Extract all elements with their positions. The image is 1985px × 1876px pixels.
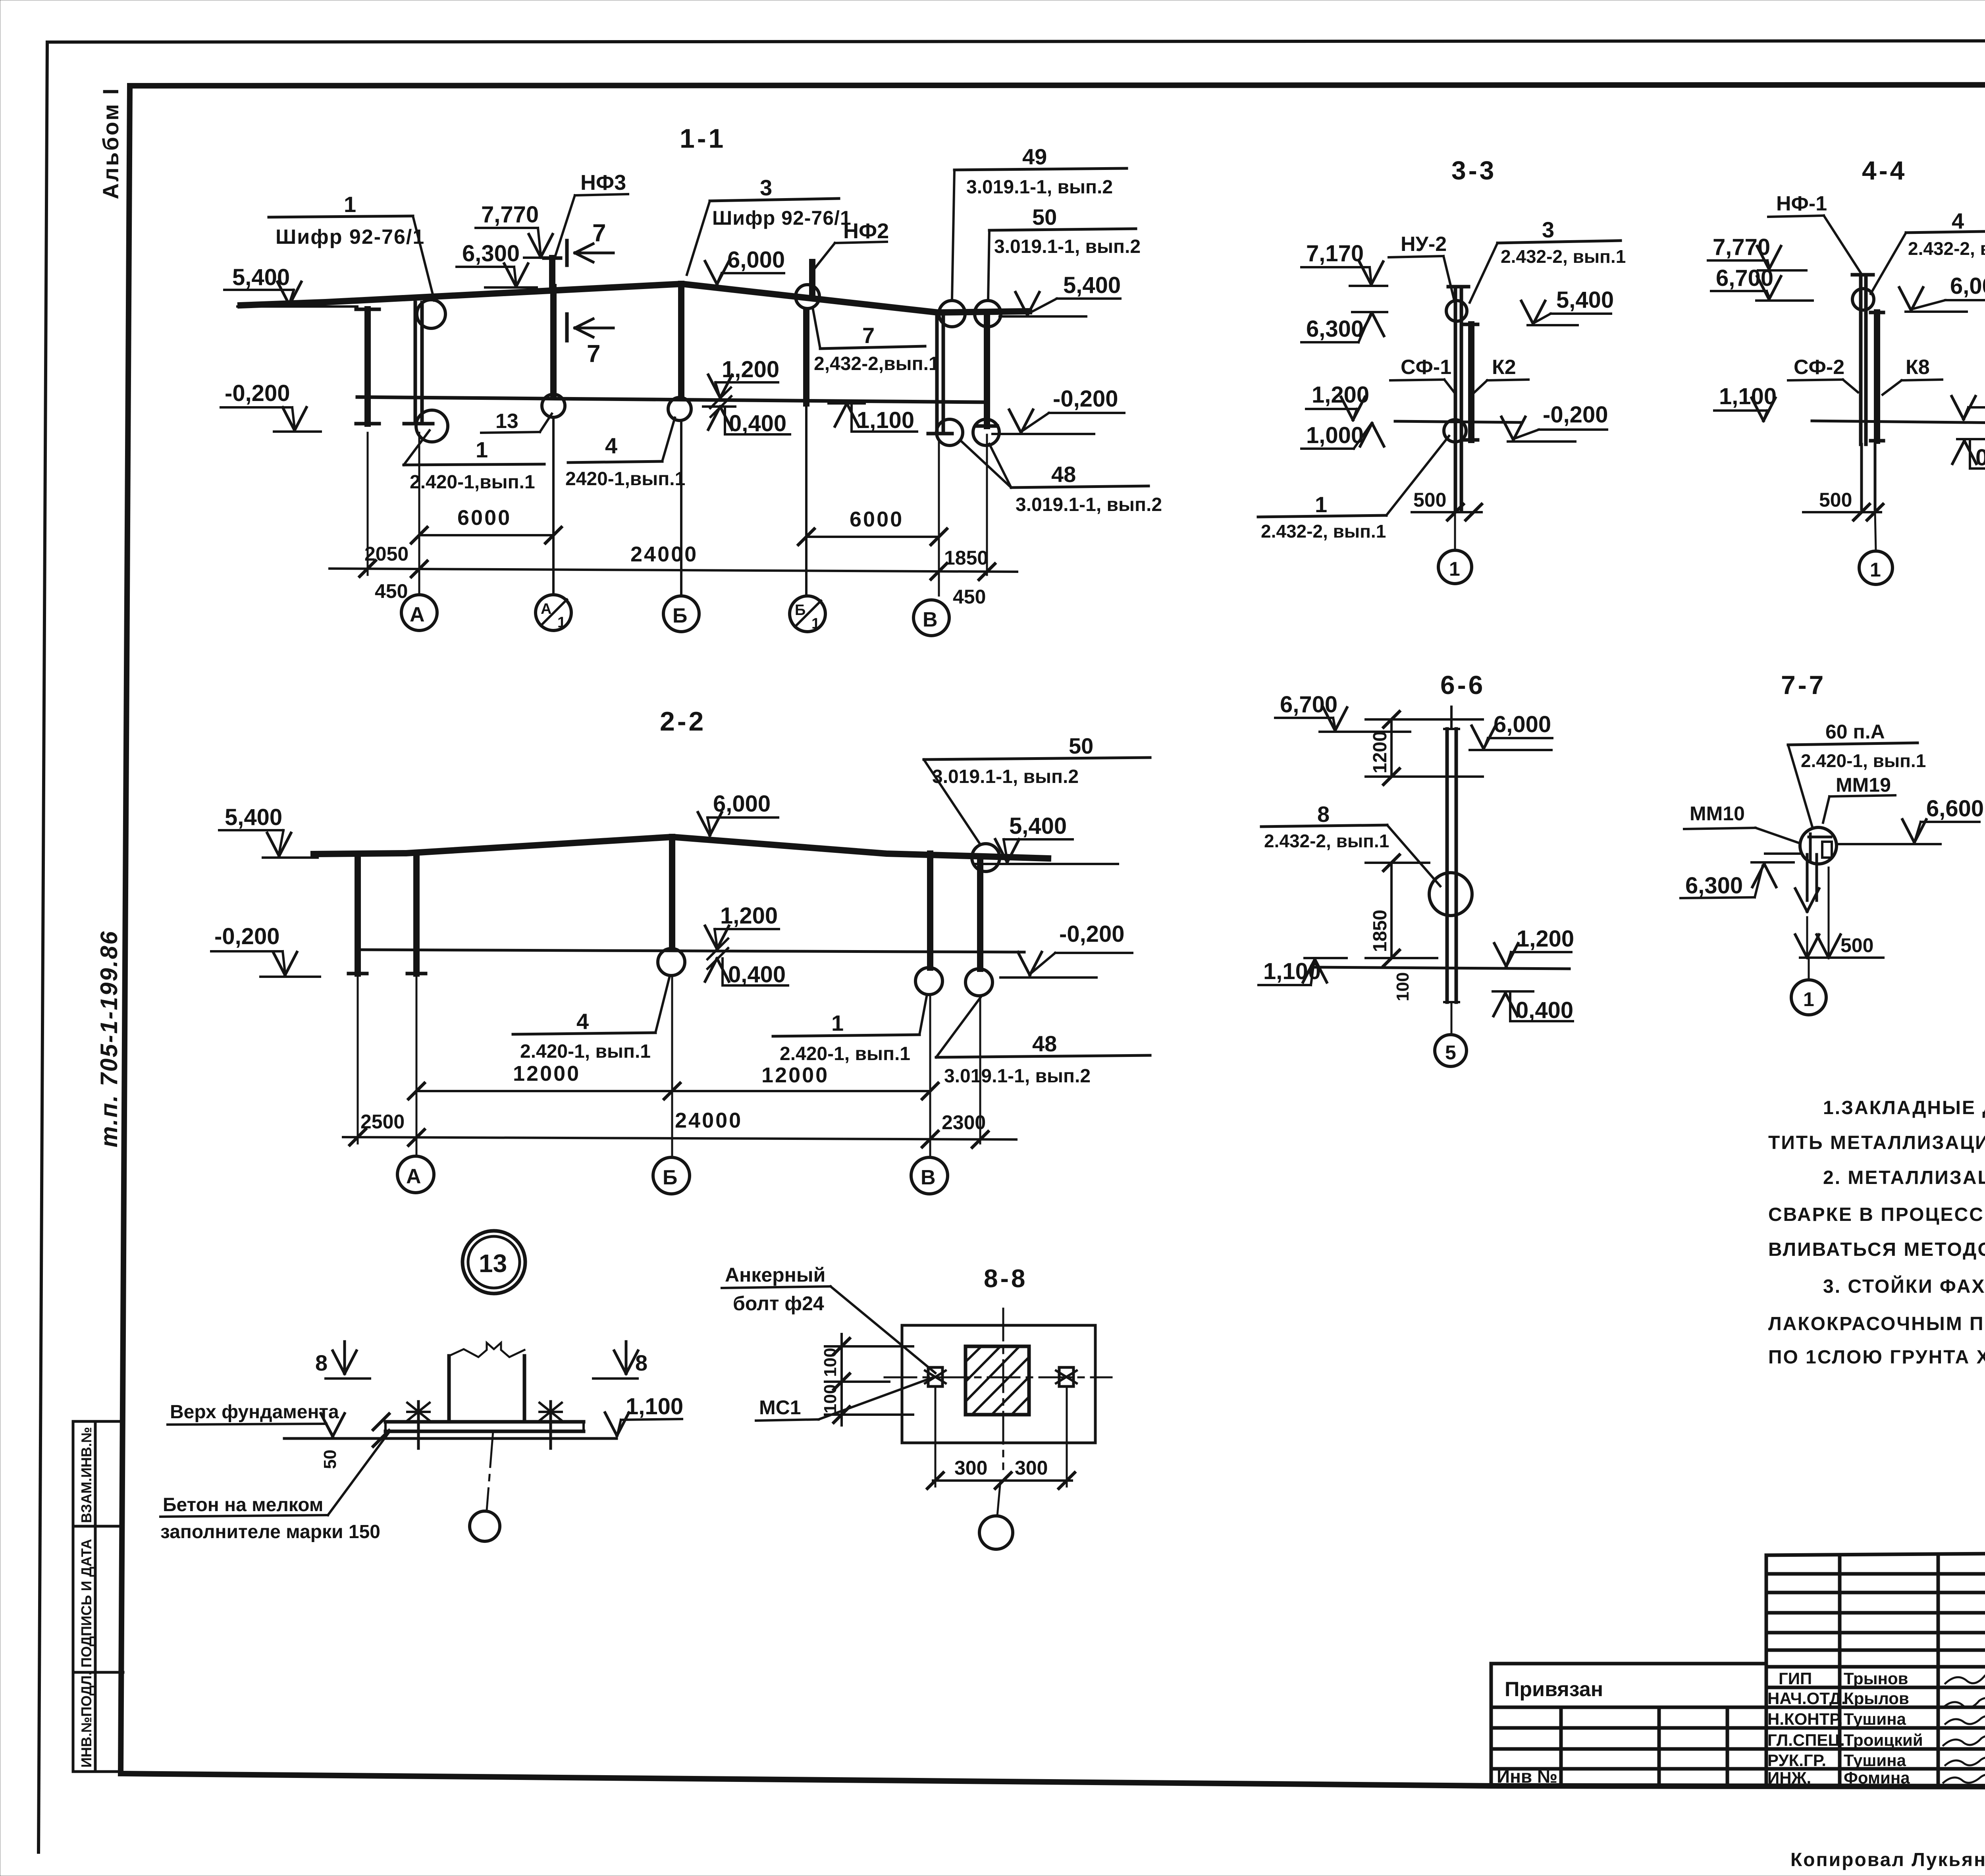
svg-text:2300: 2300: [942, 1111, 986, 1134]
foundation top line node 13: [284, 1437, 617, 1440]
svg-text:6,700: 6,700: [1716, 265, 1773, 291]
dim 300 300 8-8: [933, 1479, 1072, 1482]
svg-text:болт ф24: болт ф24: [733, 1292, 824, 1315]
main dim line 24000: [330, 569, 1017, 572]
svg-text:Б: Б: [663, 1166, 677, 1189]
svg-text:12000: 12000: [513, 1062, 580, 1085]
signatures squiggles: [1943, 1672, 1985, 1783]
svg-text:5: 5: [1445, 1041, 1456, 1064]
svg-text:12000: 12000: [761, 1063, 829, 1087]
node circle 6-6: [1429, 873, 1472, 916]
node circle 7-7: [1800, 827, 1837, 864]
svg-text:НФ3: НФ3: [580, 171, 626, 195]
svg-text:3.019.1-1, вып.2: 3.019.1-1, вып.2: [994, 236, 1141, 257]
anchor bolts below node 7-7: [1806, 854, 1809, 900]
svg-text:6,600: 6,600: [1926, 796, 1984, 821]
svg-text:СФ-2: СФ-2: [1794, 356, 1844, 379]
svg-text:4: 4: [576, 1009, 589, 1034]
anchor bolt left node 13: [417, 1402, 420, 1448]
dim line 12000+12000: [416, 1090, 930, 1092]
column A 2-2: [413, 854, 420, 974]
svg-text:2.432-2, вып.1: 2.432-2, вып.1: [1501, 246, 1626, 267]
svg-text:1850: 1850: [1370, 910, 1391, 952]
svg-text:ПОДПИСЬ И ДАТА: ПОДПИСЬ И ДАТА: [78, 1539, 94, 1668]
svg-text:3.019.1-1, вып.2: 3.019.1-1, вып.2: [932, 766, 1079, 787]
svg-text:К2: К2: [1492, 356, 1516, 379]
svg-text:Тушина: Тушина: [1844, 1751, 1906, 1770]
svg-text:МС1: МС1: [759, 1396, 801, 1419]
column V (double): [935, 312, 939, 434]
node circles V roof: [939, 301, 965, 327]
elevation 0,400 right 4-4: [1957, 438, 1985, 440]
node circle top 4-4: [1852, 289, 1874, 310]
anchor bolt right node 13: [549, 1402, 552, 1448]
svg-text:2.432-2, вып.1: 2.432-2, вып.1: [1261, 521, 1386, 542]
svg-text:450: 450: [375, 580, 408, 602]
svg-text:Крылов: Крылов: [1844, 1689, 1909, 1708]
svg-text:450: 450: [953, 586, 986, 608]
svg-text:2,432-2,вып.1: 2,432-2,вып.1: [814, 353, 939, 374]
post left of A 2-2: [355, 858, 361, 974]
svg-text:50: 50: [1069, 733, 1093, 758]
svg-text:6,300: 6,300: [462, 241, 520, 266]
svg-text:7: 7: [592, 220, 606, 247]
0.400 level tick at B: [703, 405, 735, 408]
svg-text:13: 13: [495, 410, 518, 433]
svg-text:3.019.1-1, вып.2: 3.019.1-1, вып.2: [944, 1066, 1091, 1087]
svg-text:500: 500: [1840, 934, 1873, 956]
column B 2-2: [669, 837, 675, 949]
svg-text:Тушина: Тушина: [1844, 1710, 1906, 1728]
svg-text:5,400: 5,400: [1556, 287, 1614, 313]
svg-text:100: 100: [1393, 972, 1413, 1001]
roof chord line 2-2: [314, 837, 1048, 858]
axis circle B: [663, 596, 699, 632]
label 50 / 3.019.1-1 vyp.2: [989, 229, 1136, 230]
svg-text:1: 1: [344, 192, 356, 217]
svg-text:1: 1: [811, 615, 820, 632]
svg-text:7-7: 7-7: [1781, 670, 1826, 700]
svg-text:2.432-2, вып.1: 2.432-2, вып.1: [1264, 831, 1389, 851]
svg-text:50: 50: [1032, 204, 1057, 229]
foundation line 6-6: [1312, 967, 1569, 969]
node circle post base 2-2: [966, 969, 992, 996]
svg-text:Бетон на мелком: Бетон на мелком: [163, 1494, 323, 1515]
foundation level line: [357, 397, 985, 402]
axis line 7-7: [1828, 868, 1830, 956]
svg-text:НУ-2: НУ-2: [1401, 233, 1447, 256]
dim 50 node 13: [373, 1414, 389, 1430]
axis circle B 2-2: [653, 1157, 690, 1194]
svg-text:ТИТЬ МЕТАЛЛИЗАЦИОННЫМ СЛОЕМ ИЗ: ТИТЬ МЕТАЛЛИЗАЦИОННЫМ СЛОЕМ ИЗ ЦИНКА 150…: [1768, 1132, 1985, 1153]
svg-text:7: 7: [862, 323, 875, 348]
svg-text:1850: 1850: [944, 547, 988, 569]
svg-text:В: В: [921, 1166, 936, 1189]
dim 6000 left: [419, 534, 553, 536]
node 13 bubble (double circle): [463, 1231, 525, 1294]
node inner details 7-7: [1809, 834, 1812, 860]
svg-text:1.ЗАКЛАДНЫЕ ДЕТАЛИ И СОЕДИНИТЕ: 1.ЗАКЛАДНЫЕ ДЕТАЛИ И СОЕДИНИТЕЛЬНЫЕ ЭЛЕМ…: [1823, 1097, 1985, 1118]
post right of V 2-2: [977, 858, 983, 969]
elevation 1,100 at B/1: [835, 403, 859, 426]
svg-text:2050: 2050: [364, 543, 409, 565]
svg-text:24000: 24000: [675, 1109, 742, 1132]
svg-text:2.432-2, вып.1: 2.432-2, вып.1: [1908, 238, 1985, 259]
bolt right 8-8: [1059, 1367, 1073, 1386]
svg-text:6-6: 6-6: [1440, 670, 1485, 700]
node circle B base 2-2: [658, 949, 685, 976]
svg-text:1,000: 1,000: [1306, 422, 1364, 448]
svg-text:6,000: 6,000: [1494, 711, 1551, 737]
svg-text:7: 7: [587, 340, 600, 368]
fachwerk post right of V: [984, 312, 990, 426]
centerlines 8-8: [885, 1377, 1112, 1379]
post 3-3 (double): [1454, 287, 1457, 509]
svg-text:50: 50: [320, 1450, 340, 1469]
svg-text:5,400: 5,400: [1063, 272, 1121, 298]
svg-text:7,770: 7,770: [481, 202, 539, 228]
svg-text:6,000: 6,000: [727, 247, 785, 273]
axis line + circle 5 6-6: [1451, 1002, 1453, 1033]
svg-text:Альбом I: Альбом I: [98, 87, 123, 199]
svg-text:Б: Б: [795, 602, 806, 619]
node circle B/1 roof: [796, 285, 819, 308]
label 48 2-2: [936, 1055, 1150, 1057]
node circle top 3-3: [1446, 301, 1467, 321]
5.400 level line left: [237, 305, 357, 308]
ground line 4-4: [1812, 421, 1985, 423]
foundation level line 2-2: [362, 950, 1024, 952]
vertical dim 1850 6-6: [1390, 863, 1393, 958]
outer plate rect 8-8: [902, 1325, 1095, 1443]
svg-text:8-8: 8-8: [984, 1264, 1028, 1293]
column B (middle): [678, 284, 684, 397]
level line through node 7-7: [1765, 852, 1800, 855]
svg-text:А: А: [541, 601, 551, 617]
post 4-4 (double): [1859, 275, 1863, 444]
svg-text:2.420-1, вып.1: 2.420-1, вып.1: [520, 1041, 651, 1062]
svg-text:-0,200: -0,200: [1053, 386, 1118, 412]
svg-text:3.019.1-1, вып.2: 3.019.1-1, вып.2: [1016, 494, 1162, 515]
svg-text:А: А: [406, 1165, 421, 1188]
svg-text:Троицкий: Троицкий: [1844, 1731, 1923, 1749]
svg-text:ММ19: ММ19: [1836, 774, 1891, 796]
svg-text:1-1: 1-1: [680, 123, 726, 154]
svg-text:7,170: 7,170: [1306, 241, 1364, 266]
svg-text:Верх фундамента: Верх фундамента: [170, 1402, 339, 1423]
svg-text:Н.КОНТР.: Н.КОНТР.: [1767, 1710, 1843, 1728]
post 6-6: [1445, 729, 1449, 1002]
outer sheet border top: [47, 40, 1985, 42]
svg-text:1: 1: [1870, 559, 1881, 581]
svg-text:1200: 1200: [1370, 731, 1391, 773]
svg-text:ПО 1СЛОЮ ГРУНТА ХС-010(ГОСТ 93: ПО 1СЛОЮ ГРУНТА ХС-010(ГОСТ 9355-81)ОБЩЕ…: [1768, 1346, 1985, 1368]
svg-text:1,100: 1,100: [626, 1394, 683, 1419]
1.100 level tick at B/1: [829, 402, 865, 405]
hatched column section 8-8: [966, 1346, 1029, 1415]
svg-text:заполнителе марки 150: заполнителе марки 150: [160, 1521, 380, 1542]
svg-text:1: 1: [557, 614, 566, 631]
svg-text:6,300: 6,300: [1685, 873, 1743, 898]
svg-text:1: 1: [831, 1010, 844, 1035]
svg-text:2. МЕТАЛЛИЗАЦИОННОЕ ПОКРЫТИЕ,: 2. МЕТАЛЛИЗАЦИОННОЕ ПОКРЫТИЕ, ПОВРЕЖДЕНН…: [1823, 1167, 1985, 1188]
axis line + circle node 13: [487, 1431, 493, 1510]
svg-text:НАЧ.ОТД.: НАЧ.ОТД.: [1767, 1689, 1846, 1708]
column A/1: [550, 287, 557, 394]
vertical dims 100 100 8-8: [840, 1334, 843, 1425]
privyazan table: [1491, 1664, 1766, 1787]
axis circle A 2-2: [397, 1156, 434, 1193]
svg-text:СФ-1: СФ-1: [1401, 356, 1451, 379]
node circles V base: [937, 419, 963, 445]
svg-text:2.420-1, вып.1: 2.420-1, вып.1: [1801, 750, 1926, 771]
section cut mark 7 upper: [565, 241, 569, 265]
svg-text:5,400: 5,400: [1009, 813, 1067, 839]
svg-text:ГЛ.СПЕЦ.: ГЛ.СПЕЦ.: [1767, 1731, 1845, 1749]
svg-text:1: 1: [476, 437, 488, 462]
svg-text:СВАРКЕ В ПРОЦЕССЕ МОНТАЖА КОНС: СВАРКЕ В ПРОЦЕССЕ МОНТАЖА КОНСТРУКЦИЙ, Д…: [1768, 1203, 1985, 1225]
svg-text:Шифр 92-76/1: Шифр 92-76/1: [712, 207, 852, 229]
axis circle A: [401, 595, 437, 630]
svg-text:Б: Б: [673, 604, 687, 627]
vertical dim 1200 6-6: [1390, 719, 1393, 777]
column B/1: [803, 310, 809, 403]
dim 6000 right: [806, 536, 939, 538]
axis circle V 2-2: [911, 1157, 948, 1194]
axis line + circle 1 3-3: [1454, 509, 1456, 549]
node circle bottom 3-3: [1444, 420, 1466, 442]
svg-text:2.420-1,вып.1: 2.420-1,вып.1: [410, 472, 535, 493]
svg-text:Анкерный: Анкерный: [725, 1264, 825, 1286]
fachwerk NF3 stub above roof at A/1: [549, 258, 555, 287]
svg-text:Привязан: Привязан: [1505, 1678, 1603, 1701]
svg-text:300: 300: [954, 1457, 987, 1479]
svg-text:4-4: 4-4: [1862, 156, 1907, 185]
axis circle V: [913, 600, 949, 636]
svg-text:НФ2: НФ2: [843, 219, 889, 243]
axis circle A/1: [536, 595, 571, 630]
svg-text:2420-1,вып.1: 2420-1,вып.1: [565, 469, 685, 490]
svg-text:2.420-1, вып.1: 2.420-1, вып.1: [780, 1043, 910, 1064]
axis circle B/1: [790, 596, 825, 632]
fachwerk NF2 stub above roof at B/1: [809, 262, 815, 296]
axis circle 1 7-7: [1808, 958, 1810, 980]
svg-text:1,100: 1,100: [1719, 384, 1777, 409]
svg-text:8: 8: [1317, 802, 1330, 827]
svg-text:ИНВ.№ПОДЛ.: ИНВ.№ПОДЛ.: [78, 1672, 94, 1768]
svg-text:5,400: 5,400: [225, 804, 282, 830]
label 1 Shifr 92-76/1: [269, 216, 413, 217]
dim line 24000 2-2: [343, 1137, 1016, 1139]
svg-text:100: 100: [821, 1384, 840, 1413]
svg-text:Шифр 92-76/1: Шифр 92-76/1: [276, 226, 425, 249]
elevation 0,400 at B: [708, 407, 732, 430]
svg-text:2-2: 2-2: [660, 706, 706, 737]
ground line 3-3: [1395, 421, 1522, 422]
svg-text:ВЗАМ.ИНВ.№: ВЗАМ.ИНВ.№: [78, 1427, 94, 1523]
svg-text:6,000: 6,000: [1950, 273, 1985, 299]
svg-text:0,400: 0,400: [1516, 997, 1573, 1023]
svg-text:В: В: [923, 608, 938, 631]
column A (double): [414, 303, 417, 424]
label 48 / 3.019.1-1 vyp.2: [1011, 486, 1149, 488]
label 50 2-2: [924, 758, 1150, 760]
svg-text:6000: 6000: [850, 507, 904, 531]
svg-text:6,700: 6,700: [1280, 692, 1337, 717]
svg-text:3.019.1-1, вып.2: 3.019.1-1, вып.2: [966, 177, 1113, 198]
column K2 bar 3-3: [1468, 324, 1474, 440]
svg-text:1: 1: [1449, 558, 1460, 580]
svg-text:Инв №: Инв №: [1497, 1766, 1557, 1787]
node circle V base 2-2: [915, 968, 942, 995]
svg-text:3-3: 3-3: [1451, 156, 1496, 185]
svg-text:3. СТОЙКИ ФАХВЕРКА, НАСАДКИ, О: 3. СТОЙКИ ФАХВЕРКА, НАСАДКИ, ОПОРНЫЕ СТО…: [1823, 1275, 1985, 1297]
svg-text:1: 1: [1315, 492, 1327, 517]
outer sheet border left: [39, 42, 47, 1852]
node circle A/1 base: [542, 394, 565, 417]
svg-text:-0,200: -0,200: [1543, 402, 1608, 428]
axis circle 8-8: [997, 1481, 1000, 1516]
svg-text:Фомина: Фомина: [1844, 1768, 1910, 1787]
svg-text:13: 13: [479, 1249, 507, 1278]
svg-text:0,400: 0,400: [1975, 445, 1985, 470]
svg-text:1,100: 1,100: [857, 407, 914, 433]
svg-text:-0,200: -0,200: [225, 380, 290, 406]
signature rows text: [1767, 1669, 1923, 1787]
svg-text:ЛАКОКРАСОЧНЫМ ПОКРЫТИЕМ ИЗ 5СЛ: ЛАКОКРАСОЧНЫМ ПОКРЫТИЕМ ИЗ 5СЛОЕВ ХВ-110…: [1768, 1313, 1985, 1334]
node circle roof right 2-2: [972, 844, 1000, 871]
svg-text:Копировал Лукьянова: Копировал Лукьянова: [1790, 1849, 1985, 1870]
svg-text:0,400: 0,400: [729, 411, 786, 436]
svg-text:6000: 6000: [457, 506, 511, 530]
svg-text:0,400: 0,400: [728, 962, 786, 987]
label 7 / 2,432-2 vyp.1 at B/1: [820, 346, 925, 349]
section cut mark 7 lower: [565, 314, 569, 341]
elevation 0,400 6-6: [1493, 990, 1533, 993]
svg-text:НФ-1: НФ-1: [1776, 192, 1827, 215]
node circle A base: [416, 410, 448, 442]
base plate node 13: [385, 1420, 584, 1424]
svg-text:-0,200: -0,200: [214, 924, 279, 949]
svg-text:1: 1: [1803, 988, 1814, 1010]
svg-text:500: 500: [1413, 489, 1446, 511]
svg-text:8: 8: [315, 1350, 328, 1375]
column K8 bar 4-4: [1874, 312, 1880, 441]
svg-text:ГИП: ГИП: [1779, 1669, 1812, 1688]
extension lines: [367, 433, 369, 575]
svg-text:6,300: 6,300: [1306, 316, 1364, 342]
svg-text:3: 3: [1542, 217, 1554, 242]
svg-text:К8: К8: [1906, 356, 1930, 379]
svg-text:500: 500: [1819, 489, 1852, 511]
svg-text:2500: 2500: [360, 1111, 405, 1133]
anchor verticals below ground 4-4: [1860, 444, 1863, 509]
svg-text:4: 4: [1952, 208, 1964, 233]
label 49 / 3.019.1-1 vyp.2: [954, 168, 1127, 170]
svg-text:300: 300: [1015, 1457, 1048, 1479]
svg-text:1,200: 1,200: [1517, 926, 1574, 952]
svg-text:Трынов: Трынов: [1844, 1669, 1908, 1688]
main drawing frame: [130, 85, 1985, 86]
svg-text:ММ10: ММ10: [1690, 802, 1745, 825]
signature table: [1766, 1552, 1985, 1787]
svg-text:100: 100: [821, 1348, 840, 1377]
svg-text:А: А: [410, 603, 425, 626]
roof chord line: [241, 284, 1029, 312]
svg-text:т.п. 705-1-199.86: т.п. 705-1-199.86: [96, 930, 122, 1147]
svg-text:48: 48: [1032, 1031, 1057, 1056]
svg-text:60 п.А: 60 п.А: [1825, 721, 1885, 743]
svg-text:3: 3: [760, 175, 772, 200]
svg-text:-0,200: -0,200: [1059, 921, 1124, 947]
svg-text:4: 4: [605, 433, 617, 458]
column stub node 13: [447, 1356, 451, 1422]
column V 2-2: [927, 854, 933, 968]
axis line + circle 1 4-4: [1875, 512, 1876, 550]
node circle B base: [668, 397, 691, 420]
node circle A roof: [417, 300, 445, 328]
thin axis continuations 2-2: [357, 974, 359, 1143]
svg-text:24000: 24000: [630, 542, 698, 566]
svg-text:ИНЖ.: ИНЖ.: [1767, 1768, 1811, 1787]
svg-text:ВЛИВАТЬСЯ МЕТОДОМ МЕТАЛЛИЗАЦИИ: ВЛИВАТЬСЯ МЕТОДОМ МЕТАЛЛИЗАЦИИ.: [1768, 1239, 1985, 1260]
svg-text:48: 48: [1051, 462, 1076, 487]
svg-text:49: 49: [1022, 144, 1047, 169]
fachwerk post left of A: [364, 309, 371, 424]
left margin stamp strip: [72, 1421, 75, 1772]
bolt left 8-8: [928, 1367, 942, 1386]
elevation 0,400 2-2: [705, 958, 729, 981]
label 3 Shifr 92-76/1: [710, 199, 839, 201]
svg-text:РУК.ГР.: РУК.ГР.: [1767, 1751, 1826, 1770]
